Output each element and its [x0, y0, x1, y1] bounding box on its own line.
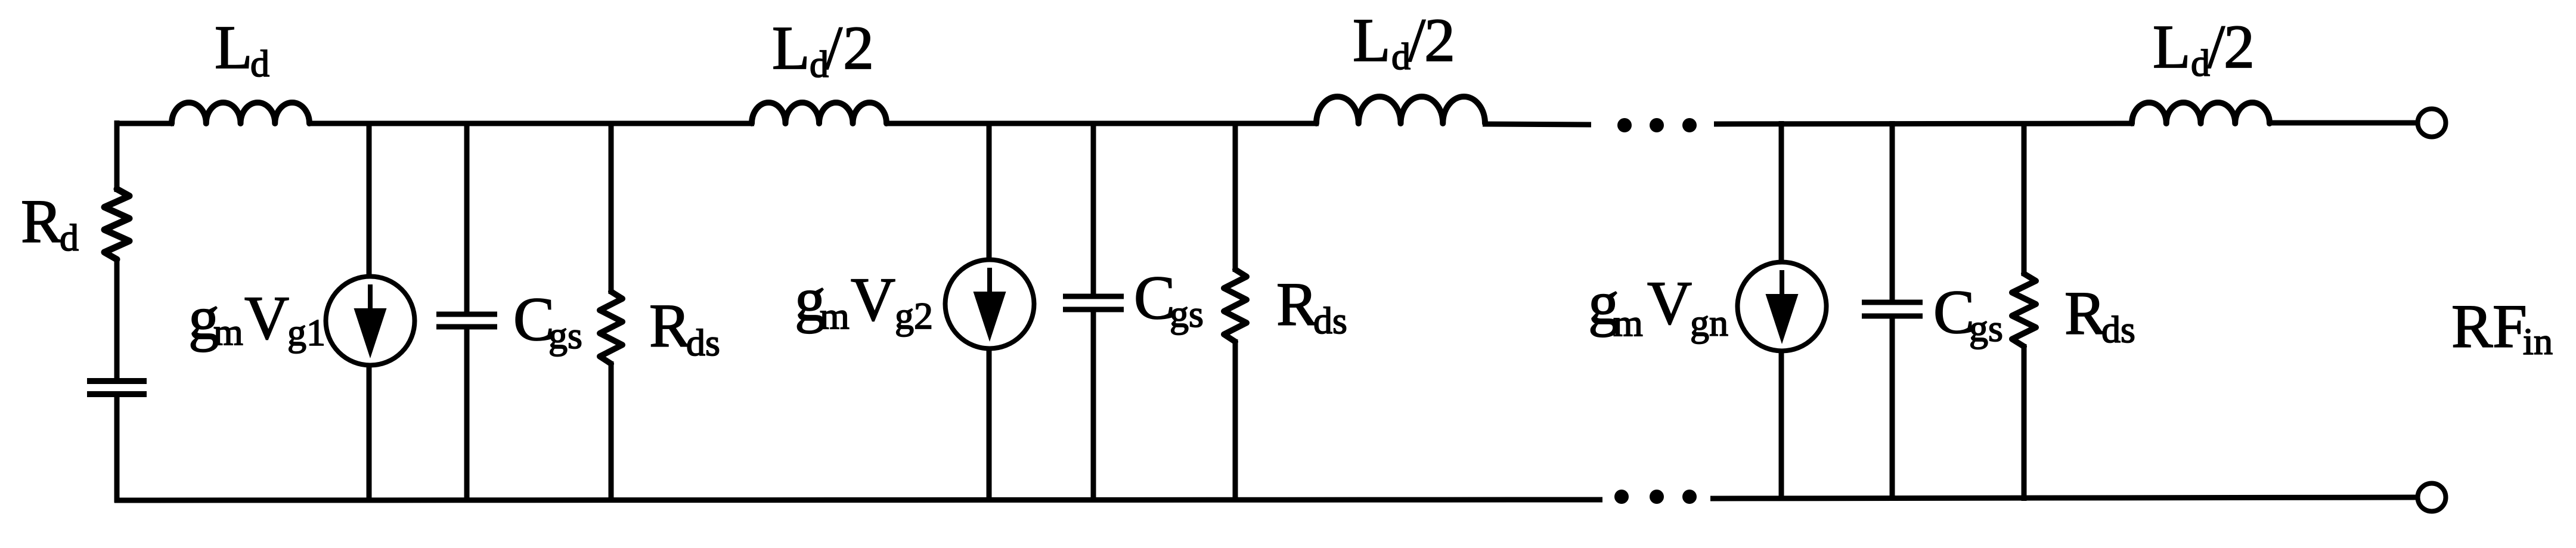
- resistor Rd: [104, 189, 129, 259]
- wire top rail to output terminal: [2267, 120, 2418, 126]
- wire drop to current source 2: [987, 121, 992, 262]
- wire left vertical lower: [114, 396, 120, 503]
- capacitor on left branch: [87, 378, 147, 384]
- wire capacitor 3 to bottom rail: [1890, 316, 1895, 501]
- wire drop to capacitor Cgs 3: [1890, 121, 1895, 303]
- wire top rail between second and third inductor: [885, 121, 1319, 126]
- wire current source 2 to bottom rail: [987, 346, 992, 501]
- wire capacitor 1 to bottom rail: [464, 327, 470, 502]
- current source gmVgn: [1738, 262, 1827, 351]
- resistor Rds 3: [2012, 274, 2036, 346]
- inductor Ld: [172, 103, 309, 123]
- terminal bottom right: [2418, 484, 2446, 512]
- wire top rail after ellipsis: [1714, 123, 2134, 124]
- wire resistor 1 to bottom rail: [609, 361, 614, 502]
- ellipsis dots top rail: [1617, 118, 1632, 132]
- wire top rail before ellipsis: [1483, 124, 1591, 125]
- ellipsis dots bottom rail: [1614, 490, 1629, 504]
- capacitor Cgs 1: [436, 312, 497, 317]
- wire drop to resistor Rds 1: [609, 121, 614, 294]
- resistor Rds 1: [600, 292, 622, 364]
- terminal top right: [2418, 109, 2446, 137]
- wire drop to current source 3: [1779, 121, 1784, 264]
- wire left vertical middle: [114, 258, 120, 379]
- resistor Rds 2: [1224, 270, 1247, 342]
- current source gmVg2: [946, 260, 1034, 349]
- wire resistor 3 to bottom rail: [2022, 344, 2027, 501]
- wire current source 1 to bottom rail: [367, 363, 372, 502]
- wire drop to resistor Rds 3: [2022, 121, 2027, 276]
- capacitor Cgs 3: [1862, 300, 1923, 305]
- wire capacitor 2 to bottom rail: [1091, 309, 1096, 501]
- wire bottom rail right segment: [1710, 497, 2418, 499]
- inductor Ld/2 (fourth): [2132, 103, 2270, 123]
- capacitor Cgs 2: [1063, 294, 1124, 299]
- wire drop to capacitor Cgs 2: [1091, 121, 1096, 297]
- wire top rail left segment: [114, 121, 174, 126]
- wire drop to resistor Rds 2: [1233, 121, 1238, 272]
- wire left vertical upper: [114, 120, 120, 192]
- wire drop to current source 1: [367, 121, 372, 278]
- wire drop to capacitor Cgs 1: [464, 121, 470, 315]
- wire bottom rail left segment: [114, 500, 1602, 500]
- wire resistor 2 to bottom rail: [1233, 339, 1238, 501]
- inductor Ld/2 (third): [1316, 97, 1485, 123]
- inductor Ld/2 (second): [752, 103, 886, 123]
- current source gmVg1: [326, 277, 415, 366]
- wire top rail between Ld and first cell: [308, 121, 754, 126]
- wire current source 3 to bottom rail: [1779, 349, 1784, 501]
